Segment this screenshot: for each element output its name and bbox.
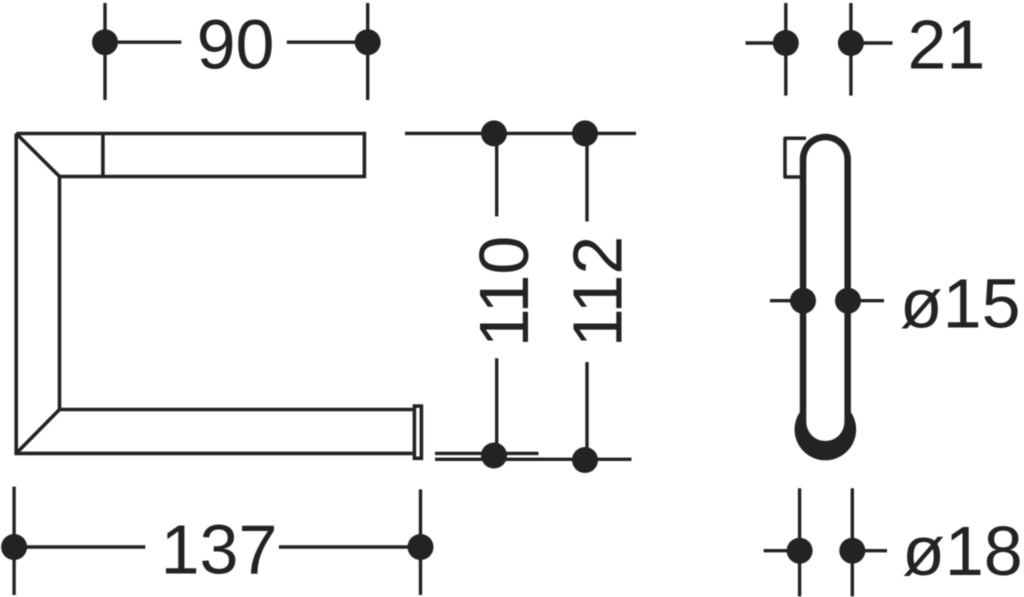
top-left chamfer line: [16, 134, 59, 177]
dim 90 right tick: [366, 3, 369, 100]
dim 112 top dot: [572, 120, 598, 146]
side view bar and roller silhouette: [795, 134, 857, 461]
dim 110 line lower segment: [495, 358, 498, 455]
dim diameter 15 left dot: [790, 288, 816, 314]
svg-text:ø15: ø15: [900, 265, 1021, 343]
dim 110 top dot: [481, 120, 507, 146]
dim 21 line left segment: [746, 41, 786, 44]
dim 110 bottom dot: [481, 443, 507, 469]
dim diameter 15 right dot: [835, 288, 861, 314]
dim 21 left dot: [773, 30, 799, 56]
dim 137 left dot: [1, 534, 27, 560]
dim 21 right dot: [838, 30, 864, 56]
dim diameter 18 line left segment: [764, 549, 800, 552]
dim 112 line upper segment: [585, 133, 588, 221]
dim 90 line left segment: [105, 41, 181, 44]
svg-text:90: 90: [197, 6, 275, 84]
dim 137 left tick: [12, 487, 15, 595]
dim diameter 15 line left segment: [770, 299, 803, 302]
dim 110/112 top reference line: [405, 132, 636, 135]
holder front view outline: [16, 134, 412, 454]
dim 21 right tick: [849, 3, 852, 96]
dim diameter 15 line right segment: [848, 299, 884, 302]
dim 137 right tick: [419, 489, 422, 595]
top bar divider line: [101, 134, 105, 177]
dim diameter 18 right dot: [839, 538, 865, 564]
svg-text:21: 21: [907, 6, 985, 84]
dim 137 line right segment: [279, 545, 421, 548]
dim diameter 18 right tick: [851, 488, 854, 596]
dim 21 left tick: [784, 3, 787, 96]
svg-text:110: 110: [465, 236, 543, 348]
svg-text:112: 112: [559, 236, 637, 348]
bottom-left chamfer line: [16, 410, 59, 454]
svg-text:ø18: ø18: [902, 512, 1023, 590]
dim 90 left tick: [103, 3, 106, 100]
bottom bar end cap: [414, 406, 421, 458]
dim 90 line right segment: [287, 41, 368, 44]
dim 112 line lower segment: [585, 362, 588, 460]
dim diameter 18 left dot: [787, 538, 813, 564]
dim diameter 18 line right segment: [852, 549, 887, 552]
dim 90 right dot: [355, 29, 381, 55]
dim 90 left dot: [92, 29, 118, 55]
dim 110 bottom reference line: [435, 452, 539, 455]
dim 112 bottom reference line: [435, 458, 632, 461]
svg-text:137: 137: [161, 511, 278, 589]
dim diameter 18 left tick: [798, 488, 801, 596]
dim 137 right dot: [408, 534, 434, 560]
dim 110 line upper segment: [495, 133, 498, 216]
dim 21 line right segment: [851, 41, 893, 44]
side view wall tab: [785, 138, 806, 177]
dim 137 line left segment: [14, 545, 145, 548]
dim 112 bottom dot: [572, 447, 598, 473]
